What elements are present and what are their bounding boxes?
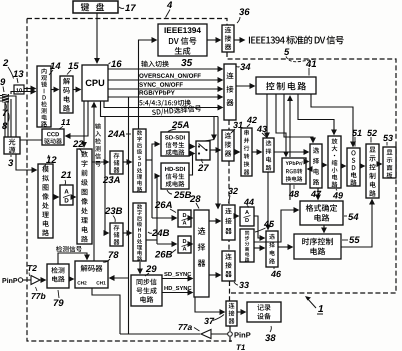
label 15 xyxy=(68,62,73,69)
digital front image processing circuit 22 xyxy=(77,149,92,244)
selector box 28 xyxy=(194,210,209,297)
label 47 xyxy=(311,191,316,197)
terminal T1 PinP output xyxy=(228,332,233,337)
wire 25A to 27 xyxy=(189,146,195,148)
timing control circuit 55 xyxy=(294,234,341,259)
sync separation circuit 45 xyxy=(240,229,254,262)
wire 32 to 44 xyxy=(235,215,239,217)
CPU box 16 xyxy=(82,65,108,101)
wire OVERSCAN line xyxy=(108,79,223,81)
label 46 xyxy=(271,271,276,277)
label 51 xyxy=(352,130,357,136)
wire dashed border of unit 5 (right block) xyxy=(227,52,396,293)
label 24B xyxy=(148,232,152,233)
recording device box 38 xyxy=(247,302,281,322)
wire 41 to 47 xyxy=(284,94,313,143)
label 8 xyxy=(2,122,7,129)
D/A converter box 26A xyxy=(178,210,191,227)
wire endoscope to ID-detect circuit xyxy=(24,88,36,90)
label 78 xyxy=(109,251,114,258)
label 33 xyxy=(234,282,238,285)
connector box 33 xyxy=(222,251,235,281)
selection circuit 47 xyxy=(310,144,322,188)
wire CPU to front processing xyxy=(83,101,85,147)
SD-SDI signal generation circuit 25A xyxy=(161,132,189,156)
wire 45 to 54 xyxy=(254,210,299,242)
wire light guide to light source xyxy=(4,103,6,138)
terminal T2 PinP input xyxy=(2,278,6,283)
wire 47 to 54 xyxy=(317,188,319,200)
label 14 xyxy=(50,62,55,69)
label 26A xyxy=(155,201,160,208)
label 28 xyxy=(190,195,195,202)
wire dashed border of unit 1 (top-left) xyxy=(27,19,227,26)
decoder box 78 xyxy=(75,261,108,288)
detection circuit box 79 xyxy=(47,264,69,288)
wire HD_SYNC to selector xyxy=(162,292,193,294)
wire 26B to 28 xyxy=(191,243,193,245)
wire 47 to 49 xyxy=(322,164,327,166)
label 21 xyxy=(61,171,66,178)
wire 45 to 46 xyxy=(254,247,265,249)
wire 28 to 33 xyxy=(209,274,221,276)
wire 48-47 arrows xyxy=(306,161,309,163)
wire 44 to 46 xyxy=(254,216,265,238)
display panel 53 xyxy=(383,147,396,178)
serial-parallel converter 42 xyxy=(241,128,252,176)
wire 79 to 78 xyxy=(69,278,74,280)
selection circuit 43 xyxy=(263,138,274,172)
connector box 31 xyxy=(222,130,234,161)
label 43 xyxy=(257,126,262,132)
wire 49 to 51 xyxy=(341,165,346,167)
wire CCD drive line to endoscope xyxy=(11,99,42,140)
wire 23A to 24A xyxy=(123,161,132,163)
wire SD_SYNC to selector xyxy=(162,278,193,280)
endoscope head (camera block) xyxy=(2,94,9,103)
display control circuit 52 xyxy=(366,144,379,198)
wire branch to 23B xyxy=(105,117,109,234)
wire dashed border of unit 1 (left+bottom) xyxy=(27,19,232,342)
wire RGB/YPbPr line xyxy=(108,96,223,98)
label 11 xyxy=(61,119,65,125)
wire 54 to 55 xyxy=(323,225,325,233)
changeover switch box 27 xyxy=(196,141,210,160)
label 55 xyxy=(342,239,348,241)
wire up into 41 xyxy=(289,96,291,157)
label 35 xyxy=(181,59,186,66)
control circuit box 41 xyxy=(256,77,316,94)
OSD circuit 51 xyxy=(347,148,360,186)
wire 15 to CPU xyxy=(73,89,81,91)
label 77a xyxy=(179,324,183,330)
wire endoscope video to analog processing xyxy=(9,96,37,170)
A/D converter box 44 xyxy=(240,207,254,226)
label 41 xyxy=(306,60,311,67)
wire 27 to connector 31 xyxy=(210,149,221,151)
wire SD/HD select line xyxy=(101,102,219,117)
label 37 xyxy=(204,318,209,324)
selection circuit 46 xyxy=(266,231,278,267)
rear SD processing circuit 24A xyxy=(133,129,146,192)
label 3 xyxy=(8,159,13,166)
wire 26A to 28 xyxy=(191,217,193,219)
label 31 xyxy=(233,122,238,128)
wire 41 to 43 xyxy=(266,94,268,138)
wire 77b to 79 xyxy=(40,279,46,281)
wire 43 to 47 xyxy=(274,151,309,153)
connector box 10 on endoscope xyxy=(14,85,24,94)
label 12 xyxy=(46,156,51,163)
label 48 xyxy=(289,191,294,197)
label 22 xyxy=(73,140,78,147)
label 45 xyxy=(264,221,269,227)
wire into IEEE1394 generator xyxy=(139,40,157,129)
wire input-detect signal to CPU xyxy=(93,103,95,262)
connector box 32 xyxy=(222,205,235,240)
wire decoder bottom out xyxy=(92,288,120,334)
label 79 xyxy=(54,299,59,306)
CCD driver box 11 xyxy=(42,129,64,145)
label 1 with arrow to border xyxy=(307,298,317,309)
wire CH1 feed xyxy=(110,277,129,279)
connector box 36 xyxy=(222,25,234,52)
wire 14 to 15 xyxy=(51,89,59,91)
endoscope ID detection circuit 14 xyxy=(37,66,51,127)
label 29 xyxy=(146,265,151,272)
wire select to switch 27 xyxy=(213,117,215,140)
wire 36 to IEEE1394 output text xyxy=(234,39,245,41)
wire 23B to 24B xyxy=(123,232,132,234)
IEEE1394 DV signal generation box xyxy=(158,24,207,56)
wire 12 to 21 xyxy=(53,196,59,198)
wire 25B to 27 xyxy=(189,154,195,176)
wire HD bus 24B out xyxy=(146,239,157,241)
wire 31 to 42 xyxy=(234,151,240,153)
connector box 37 xyxy=(226,301,237,326)
wire select to selector 28 xyxy=(217,117,219,209)
keyboard box 17 xyxy=(73,1,118,13)
label 25A xyxy=(172,121,177,128)
wire 28 to 32 xyxy=(209,220,221,222)
memory box 23A xyxy=(110,151,123,174)
wire 46 to 55 xyxy=(278,246,293,248)
wire 52 to 53 xyxy=(379,163,382,165)
label 2 xyxy=(3,59,8,66)
wire 42 to 43 xyxy=(252,151,262,153)
label 26B xyxy=(155,251,160,258)
label 25B xyxy=(167,190,172,194)
label 53 xyxy=(383,135,388,141)
wire long bus down to T1 line xyxy=(128,97,130,334)
label 27 xyxy=(198,164,203,171)
wire IEEE1394 gen to connector 36 xyxy=(207,39,221,41)
wire CPU to CCD driver xyxy=(66,101,89,136)
label 13 xyxy=(13,70,18,77)
sync signal generation circuit 29 xyxy=(131,275,162,306)
wire 28 to 37 xyxy=(195,297,225,312)
wire 55 to 52 xyxy=(341,200,372,248)
wire SD bus 24A out xyxy=(146,159,152,161)
YPbPr/RGB conversion circuit 48 xyxy=(282,158,306,184)
label 17 xyxy=(119,7,124,9)
light source box 3 xyxy=(4,137,20,154)
wire 51 to 52 xyxy=(360,165,365,167)
wire SYNC line xyxy=(108,88,223,90)
HD-SDI signal generation circuit 25B xyxy=(161,163,189,189)
wire 34 to 41 xyxy=(236,85,255,87)
wire 21 to 22 xyxy=(73,196,76,198)
connector box 34 xyxy=(224,64,236,120)
label 23B xyxy=(105,207,110,214)
wire detect signal 79 to 78 top xyxy=(58,253,87,264)
label 38 xyxy=(265,334,270,341)
label 7 xyxy=(3,109,8,116)
wire 41 to 49 xyxy=(298,94,334,135)
label 77b xyxy=(32,293,36,299)
amplifier 77b xyxy=(31,276,40,285)
wire input-switch line xyxy=(108,68,223,70)
D/A converter box 26B xyxy=(178,236,191,253)
wire 43 to 46 xyxy=(267,172,269,230)
label 4 xyxy=(167,1,172,8)
wire T1 line with amplifier 77a xyxy=(120,333,200,335)
A/D converter box 21 xyxy=(60,185,73,205)
wire 37 to 38 xyxy=(237,311,246,313)
label 5 xyxy=(284,48,289,55)
wire 22 to 23A xyxy=(92,161,109,163)
decode circuit box 15 xyxy=(60,76,73,113)
label 23A xyxy=(103,176,108,183)
label 44 xyxy=(244,199,249,205)
label 16 xyxy=(109,63,111,65)
wire 41 to 51 xyxy=(311,94,353,147)
memory box 23B xyxy=(110,223,123,246)
label 9 xyxy=(0,78,5,85)
format determination circuit 54 xyxy=(300,201,343,225)
enlarge/reduce circuit 49 xyxy=(328,136,341,188)
wire aspect switch line xyxy=(104,102,223,108)
label 34 xyxy=(237,66,240,69)
label 32 xyxy=(228,188,233,194)
wire keyboard to CPU xyxy=(96,13,98,63)
analog image processing circuit 12 xyxy=(38,164,53,238)
label 52 xyxy=(367,130,372,136)
rear HD processing circuit 24B xyxy=(133,203,146,261)
label 42 xyxy=(247,117,252,123)
wire 41 to 48 xyxy=(276,94,286,157)
label 24A xyxy=(108,130,113,137)
label 36 xyxy=(237,17,240,23)
wire dashed divider segments at connectors xyxy=(228,120,230,130)
wire 24B to 29 xyxy=(139,262,141,274)
label 49 xyxy=(333,192,338,198)
label 54 xyxy=(344,215,347,217)
